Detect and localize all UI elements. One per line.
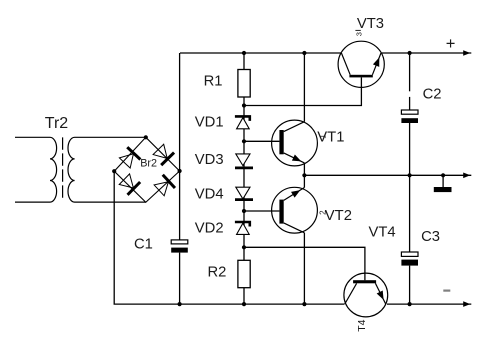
svg-text:2: 2 — [318, 210, 327, 215]
svg-text:3: 3 — [354, 32, 363, 36]
svg-text:VT4: VT4 — [369, 225, 396, 241]
svg-text:Tr2: Tr2 — [45, 115, 69, 132]
svg-text:Br2: Br2 — [140, 158, 157, 170]
svg-text:C1: C1 — [134, 237, 153, 253]
svg-text:VD3: VD3 — [195, 152, 224, 168]
svg-text:R2: R2 — [208, 265, 227, 281]
svg-text:VT3: VT3 — [357, 16, 384, 32]
svg-text:+: + — [446, 35, 456, 53]
svg-text:VT2: VT2 — [325, 208, 352, 224]
svg-text:VD4: VD4 — [195, 186, 224, 202]
svg-text:C2: C2 — [423, 86, 442, 102]
svg-text:1: 1 — [318, 134, 328, 139]
svg-text:R1: R1 — [204, 74, 223, 90]
svg-text:VD1: VD1 — [195, 114, 224, 130]
svg-text:VD2: VD2 — [195, 221, 224, 237]
svg-text:C3: C3 — [421, 229, 440, 245]
svg-text:T4: T4 — [356, 319, 368, 331]
